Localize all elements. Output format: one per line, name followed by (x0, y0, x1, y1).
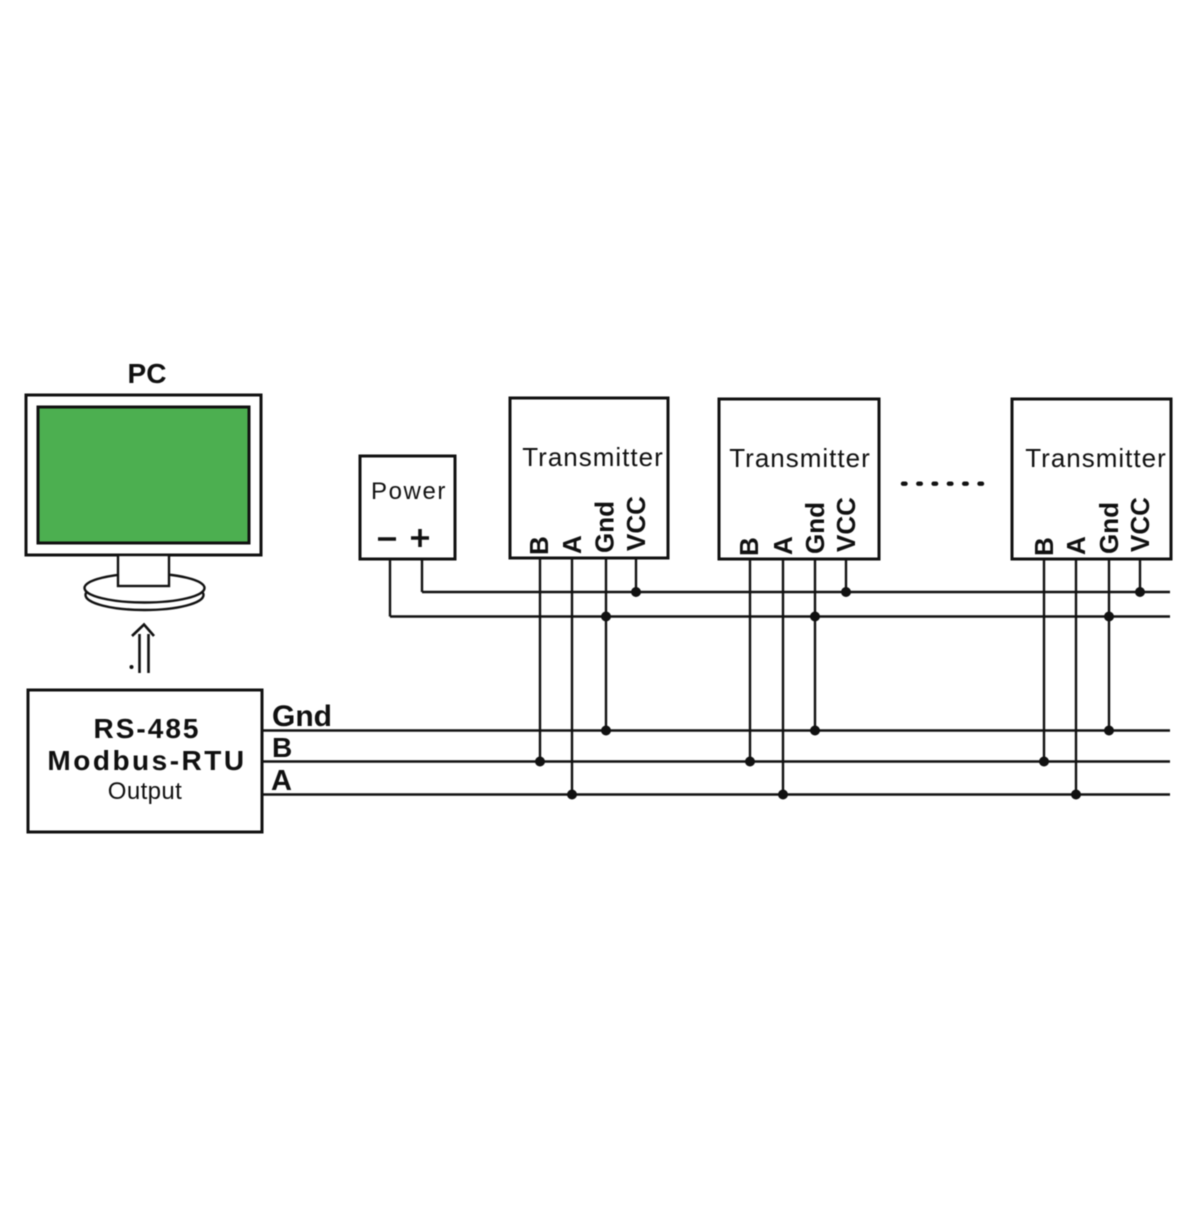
Transmitter 1 box (510, 398, 668, 558)
PC monitor frame (26, 395, 261, 555)
wire: +VCC power rail (422, 591, 1170, 593)
wire: T3 pin A down to A bus (1075, 559, 1077, 795)
minus terminal (378, 537, 396, 541)
Power box (360, 456, 455, 559)
wire: T3 pin Gnd down to Gnd bus (1108, 559, 1110, 731)
svg-text:RS-485: RS-485 (94, 713, 201, 744)
RS-485 Modbus-RTU Output box (28, 690, 262, 832)
svg-text:Gnd: Gnd (1094, 502, 1124, 554)
PC stand base (85, 574, 205, 603)
svg-text:B: B (524, 536, 554, 555)
Transmitter 3 box (1012, 399, 1171, 559)
svg-text:Power: Power (371, 478, 447, 505)
wire: T2 pin Gnd down to Gnd bus (814, 559, 816, 731)
svg-text:VCC: VCC (621, 496, 651, 551)
Transmitter 2 box (719, 399, 879, 559)
junction: T3 Gnd on Gnd bus (1104, 726, 1114, 736)
wire: T2 pin VCC down to + rail (845, 559, 847, 592)
PC stand neck (118, 555, 169, 586)
wire: power minus pin down (389, 559, 391, 617)
svg-text:B: B (272, 732, 292, 763)
junction: T3 B on B bus (1039, 757, 1049, 767)
junction: T2 Gnd on - rail (810, 612, 820, 622)
svg-text:B: B (734, 537, 764, 556)
wire: power plus pin down (421, 559, 423, 592)
junction: T1 Gnd on Gnd bus (601, 726, 611, 736)
wire: T3 pin B down to B bus (1043, 559, 1045, 762)
wire: T1 pin A down to A bus (571, 558, 573, 795)
svg-text:Transmitter: Transmitter (522, 442, 664, 472)
junction: T1 Gnd on - rail (601, 612, 611, 622)
wire: T3 pin VCC down to + rail (1139, 559, 1141, 592)
wire: T1 pin Gnd down to Gnd bus (605, 558, 607, 731)
svg-text:A: A (271, 765, 292, 797)
junction: T1 B on B bus (535, 757, 545, 767)
wire: Gnd bus (262, 729, 1170, 731)
plus terminal (411, 529, 429, 547)
wire: T1 pin VCC down to + rail (635, 558, 637, 592)
wire: T2 pin B down to B bus (749, 559, 751, 762)
wire: A bus (262, 793, 1170, 795)
svg-text:Gnd: Gnd (800, 502, 830, 554)
svg-text:Transmitter: Transmitter (729, 443, 871, 473)
svg-text:PC: PC (128, 358, 167, 389)
junction: T3 A on A bus (1071, 790, 1081, 800)
svg-text:Gnd: Gnd (272, 700, 332, 733)
junction: T3 Gnd on - rail (1104, 612, 1114, 622)
svg-text:Gnd: Gnd (590, 501, 620, 553)
svg-text:A: A (768, 536, 798, 555)
svg-text:VCC: VCC (831, 497, 861, 552)
svg-text:A: A (1061, 536, 1091, 555)
junction: T2 VCC on + rail (841, 587, 851, 597)
PC monitor green screen (38, 407, 249, 543)
svg-text:Output: Output (108, 778, 182, 805)
svg-text:B: B (1029, 537, 1059, 556)
junction: T2 B on B bus (745, 757, 755, 767)
junction: T2 Gnd on Gnd bus (810, 726, 820, 736)
junction: T1 A on A bus (567, 790, 577, 800)
junction: T1 VCC on + rail (631, 587, 641, 597)
wire: T2 pin A down to A bus (782, 559, 784, 795)
svg-text:A: A (557, 535, 587, 554)
PC stand base lower rim (86, 580, 204, 610)
arrow from RS-485 to PC (double shaft, up) (130, 625, 155, 674)
svg-text:Transmitter: Transmitter (1025, 443, 1167, 473)
svg-text:VCC: VCC (1125, 497, 1155, 552)
junction: T3 VCC on + rail (1135, 587, 1145, 597)
wire: T1 pin B down to B bus (539, 558, 541, 762)
wire: B bus (262, 760, 1170, 762)
svg-text:Modbus-RTU: Modbus-RTU (47, 745, 246, 776)
wire: -/Gnd power rail (390, 615, 1170, 617)
ellipsis between transmitters (903, 482, 984, 486)
junction: T2 A on A bus (778, 790, 788, 800)
